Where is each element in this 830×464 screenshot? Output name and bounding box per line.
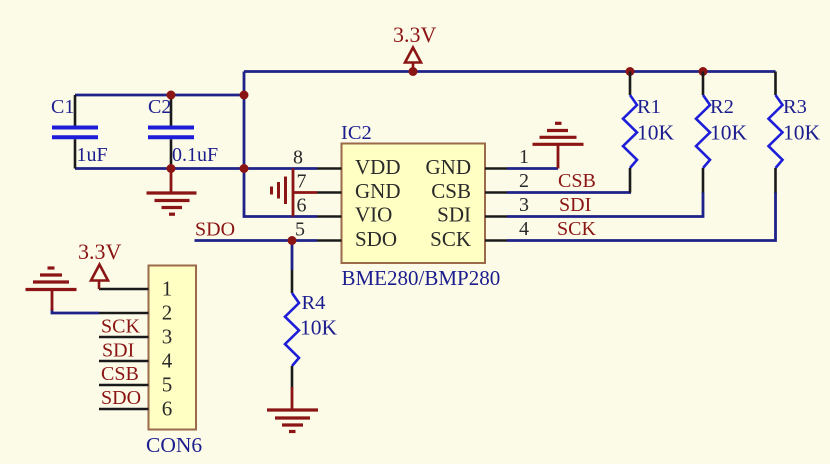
svg-text:6: 6 [297, 195, 307, 217]
ground at CON6 pin 2 [51, 290, 54, 311]
svg-text:SDO: SDO [101, 387, 141, 409]
CON6 pin stub 5 [99, 384, 149, 387]
svg-text:1: 1 [519, 146, 529, 168]
junction R2 top [699, 67, 708, 76]
svg-text:0.1uF: 0.1uF [172, 144, 218, 166]
svg-text:6: 6 [162, 397, 173, 421]
wire cap top line [75, 94, 244, 97]
power 3.3V at CON6 [91, 265, 108, 281]
svg-text:SDI: SDI [102, 340, 134, 362]
IC pin stub 4 [485, 239, 507, 242]
junction SDO/R4 [288, 236, 297, 245]
wire R4 drop [291, 241, 294, 271]
IC pin stub 6 [317, 215, 342, 218]
svg-text:3: 3 [162, 325, 173, 349]
svg-text:BME280/BMP280: BME280/BMP280 [342, 266, 501, 290]
wire pin1 to ground [507, 167, 558, 170]
wire SDO row [195, 239, 318, 242]
junction C2 bottom [167, 164, 176, 173]
resistor R3 [774, 72, 777, 96]
capacitor C2 [170, 95, 173, 126]
svg-text:GND: GND [426, 155, 472, 179]
svg-text:SDO: SDO [355, 227, 397, 251]
svg-text:R3: R3 [783, 96, 807, 118]
wire main left vertical [244, 72, 317, 217]
svg-text:10K: 10K [300, 316, 338, 340]
wire top 3.3V rail [244, 70, 776, 73]
svg-text:3.3V: 3.3V [393, 22, 437, 47]
svg-text:3: 3 [519, 194, 529, 216]
CON6 pin stub 2 [99, 312, 149, 315]
svg-text:7: 7 [297, 171, 307, 193]
svg-text:4: 4 [519, 218, 529, 240]
resistor R4 [291, 270, 294, 293]
svg-text:SCK: SCK [557, 218, 596, 240]
svg-text:2: 2 [162, 301, 173, 325]
wire CON6 pin2 to ground [52, 308, 99, 313]
connector CON6 box [149, 266, 197, 430]
IC pin stub 8 [317, 167, 342, 170]
CON6 pin stub 1 [99, 288, 149, 291]
svg-text:3.3V: 3.3V [78, 239, 122, 264]
wire SDI net [507, 192, 703, 217]
CON6 pin stub 6 [99, 408, 149, 411]
capacitor C1 [74, 95, 77, 126]
svg-text:2: 2 [519, 170, 529, 192]
IC pin stub 7 [317, 191, 342, 194]
IC pin stub 3 [485, 215, 507, 218]
svg-text:SCK: SCK [101, 316, 140, 338]
junction at 3.3V rail [409, 67, 418, 76]
ground below R4 [291, 387, 294, 410]
svg-text:CSB: CSB [558, 170, 596, 192]
wire CSB net [507, 191, 631, 194]
svg-text:R4: R4 [302, 292, 326, 314]
svg-text:8: 8 [293, 147, 303, 169]
wire SCK net [507, 192, 776, 241]
svg-text:SDO: SDO [195, 219, 235, 241]
svg-text:5: 5 [162, 373, 173, 397]
junction main vertical top line [240, 91, 249, 100]
svg-text:10K: 10K [710, 121, 748, 145]
svg-text:GND: GND [355, 179, 401, 203]
svg-text:SDI: SDI [437, 203, 471, 227]
power 3.3V top [405, 48, 421, 63]
wire cap bottom / VDD line [75, 167, 317, 170]
svg-text:CON6: CON6 [146, 433, 202, 457]
ground below C2 [170, 169, 173, 194]
junction R1 top [626, 67, 635, 76]
junction VDD line [240, 164, 249, 173]
CON6 pin stub 4 [99, 360, 149, 363]
svg-text:VDD: VDD [355, 155, 401, 179]
CON6 pin stub 3 [99, 336, 149, 339]
svg-text:CSB: CSB [431, 179, 471, 203]
svg-text:R2: R2 [710, 96, 734, 118]
IC pin stub 5 [317, 239, 342, 242]
svg-text:C2: C2 [148, 96, 171, 118]
svg-text:SDI: SDI [559, 194, 591, 216]
svg-text:1: 1 [162, 277, 173, 301]
svg-text:10K: 10K [783, 121, 821, 145]
IC pin stub 1 [485, 167, 507, 170]
resistor R1 [629, 72, 632, 96]
svg-text:10K: 10K [637, 121, 675, 145]
svg-text:SCK: SCK [430, 227, 471, 251]
resistor R2 [702, 72, 705, 96]
svg-text:R1: R1 [637, 96, 661, 118]
svg-text:4: 4 [162, 349, 173, 373]
svg-text:IC2: IC2 [341, 122, 372, 144]
svg-text:CSB: CSB [101, 363, 139, 385]
ground rotated at IC pin 7 [292, 169, 295, 217]
junction C2 top [167, 91, 176, 100]
svg-text:VIO: VIO [355, 203, 392, 227]
IC pin stub 2 [485, 191, 507, 194]
svg-text:1uF: 1uF [77, 144, 108, 166]
ground at IC pin 1 [557, 144, 560, 169]
svg-text:C1: C1 [51, 96, 74, 118]
IC U1 box [342, 144, 486, 264]
svg-text:5: 5 [295, 219, 305, 241]
